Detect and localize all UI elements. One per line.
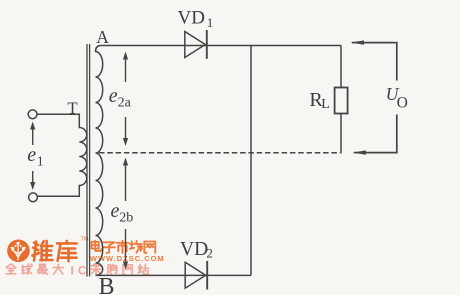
svg-text:O: O	[397, 94, 408, 111]
svg-text:VD: VD	[180, 239, 208, 260]
svg-text:I: I	[71, 265, 74, 277]
svg-text:e: e	[111, 200, 120, 222]
svg-text:1: 1	[207, 15, 214, 30]
svg-text:C: C	[78, 265, 86, 277]
svg-text:e: e	[27, 144, 36, 166]
svg-text:2b: 2b	[119, 211, 133, 226]
svg-text:e: e	[109, 85, 118, 107]
svg-text:1: 1	[37, 153, 44, 168]
svg-text:T: T	[68, 98, 78, 117]
svg-text:2a: 2a	[118, 96, 132, 111]
svg-text:A: A	[96, 27, 109, 47]
svg-text:2: 2	[206, 246, 213, 261]
svg-text:B: B	[99, 274, 115, 295]
svg-text:L: L	[321, 97, 330, 112]
svg-text:VD: VD	[178, 8, 205, 29]
